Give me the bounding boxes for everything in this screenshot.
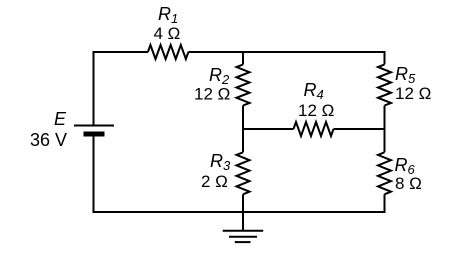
resistor R3 — [237, 152, 250, 194]
svg-text:8 Ω: 8 Ω — [395, 174, 422, 193]
svg-text:2 Ω: 2 Ω — [201, 172, 228, 191]
svg-text:12 Ω: 12 Ω — [194, 85, 230, 104]
resistor R2 — [237, 65, 250, 106]
wire: left branch upper vertical (E top lead) — [93, 51, 95, 126]
resistor R4 — [294, 122, 334, 136]
wire: right branch bottom stub — [384, 194, 386, 213]
svg-text:12 Ω: 12 Ω — [298, 101, 334, 120]
wire: middle branch top stub — [242, 52, 244, 65]
resistor R6 — [378, 152, 391, 194]
wire: middle branch between R2 and R3 (middle node) — [242, 106, 244, 153]
resistor R5 — [378, 65, 391, 106]
wire: middle horizontal left segment (R4 left lead) — [242, 128, 294, 130]
ground — [223, 212, 264, 242]
wire: middle branch bottom stub — [242, 194, 244, 212]
wire: left branch lower vertical (E bottom lead) — [93, 137, 95, 214]
wire: bottom wire — [94, 211, 385, 213]
wire: middle horizontal right segment (R4 right lead) — [334, 128, 386, 130]
wire: top wire right segment — [188, 51, 385, 53]
svg-text:12 Ω: 12 Ω — [395, 84, 431, 103]
svg-text:E: E — [54, 109, 67, 129]
battery E — [74, 126, 114, 137]
svg-text:36 V: 36 V — [30, 130, 67, 150]
wire: right branch top stub — [384, 51, 386, 65]
wire: right branch between R5 and R6 — [384, 106, 386, 153]
svg-text:4 Ω: 4 Ω — [154, 24, 181, 43]
resistor R1 — [148, 45, 189, 59]
wire: top wire left segment — [93, 51, 148, 53]
